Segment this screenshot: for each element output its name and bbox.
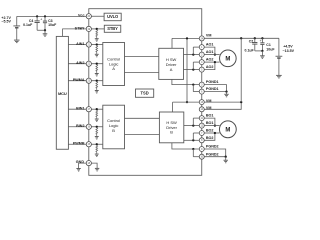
svg-text:VM: VM [206,106,212,110]
svg-text:C1: C1 [266,43,271,47]
svg-text:PGND2: PGND2 [206,152,219,156]
svg-text:PWMA: PWMA [73,78,85,82]
svg-text:BO2: BO2 [206,136,214,140]
svg-text:VM: VM [206,99,212,103]
svg-text:AIN2: AIN2 [76,61,84,65]
svg-text:VM: VM [206,34,212,38]
svg-text:AO1: AO1 [206,50,214,54]
svg-text:~5.5V: ~5.5V [1,20,11,24]
svg-text:PGND2: PGND2 [206,145,219,149]
svg-text:0.1uF: 0.1uF [245,48,255,52]
svg-text:M: M [225,57,230,63]
svg-text:0.1uF: 0.1uF [23,23,33,27]
svg-text:STBY: STBY [107,26,118,31]
svg-text:PWMB: PWMB [73,142,85,146]
svg-text:BIN2: BIN2 [76,124,84,128]
svg-text:STBY: STBY [75,26,85,30]
svg-text:10uF: 10uF [48,23,57,27]
svg-text:UVLO: UVLO [107,14,119,19]
svg-text:M: M [225,128,230,134]
svg-text:AO2: AO2 [206,58,214,62]
svg-text:BO1: BO1 [206,114,214,118]
svg-text:C2: C2 [249,39,254,43]
svg-text:+: + [260,39,262,43]
svg-text:AO2: AO2 [206,65,214,69]
svg-text:PGND1: PGND1 [206,80,219,84]
svg-text:A: A [112,66,115,71]
svg-text:B: B [112,128,115,133]
svg-text:+: + [40,17,42,21]
svg-text:MCU: MCU [58,91,67,96]
svg-text:B: B [170,130,173,135]
svg-text:Vcc: Vcc [78,14,85,18]
svg-text:TSD: TSD [141,91,149,96]
svg-text:~13.5V: ~13.5V [283,49,295,53]
svg-text:+4.5V: +4.5V [283,44,293,48]
svg-text:A: A [170,67,173,72]
svg-text:PGND1: PGND1 [206,87,219,91]
svg-text:BO2: BO2 [206,129,214,133]
svg-text:BO1: BO1 [206,121,214,125]
svg-text:AO1: AO1 [206,43,214,47]
svg-text:10uF: 10uF [266,48,275,52]
svg-text:GND: GND [76,160,85,164]
svg-text:BIN1: BIN1 [76,107,84,111]
svg-text:AIN1: AIN1 [76,42,84,46]
